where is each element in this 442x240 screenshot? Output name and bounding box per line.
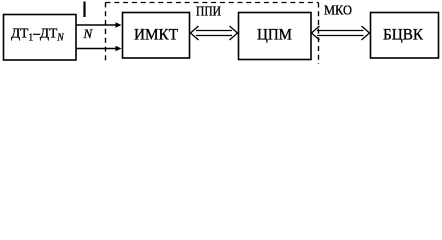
svg-text:БЦВК: БЦВК (383, 27, 423, 44)
label DT1-DTN (11, 25, 64, 44)
svg-text:ППИ: ППИ (196, 4, 221, 19)
wire 1 from DT block to IMKT (76, 24, 117, 26)
double arrow IMKT-TsPM (PPI bus) (191, 26, 238, 40)
arrowhead wire 2 (116, 46, 122, 52)
wire 2 from DT block to IMKT (76, 48, 117, 50)
svg-text:ДТ1–ДТN: ДТ1–ДТN (11, 25, 64, 44)
svg-text:N: N (83, 26, 94, 41)
svg-text:ЦПМ: ЦПМ (257, 27, 292, 44)
block BTsVK (371, 13, 439, 59)
block TsPM (239, 13, 312, 60)
arrowhead wire 1 (116, 22, 122, 28)
double arrow TsPM-BTsVK (MKO bus) (312, 26, 370, 40)
block IMKT (123, 13, 190, 59)
stub line going up from DT block (83, 2, 85, 18)
dashed enclosure (cropped at bottom) (105, 2, 107, 29)
svg-text:ИМКТ: ИМКТ (134, 27, 178, 44)
block DT1-DTN (temperature sensors) (4, 15, 77, 61)
svg-text:МКО: МКО (324, 3, 352, 18)
